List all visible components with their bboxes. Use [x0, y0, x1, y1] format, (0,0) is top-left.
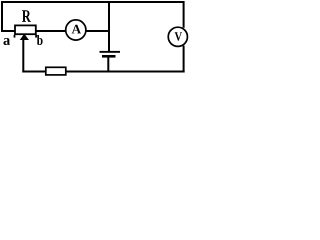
wire wiper vertical — [22, 39, 24, 72]
rheostat terminal stub a — [14, 35, 16, 38]
label R — [22, 10, 31, 22]
rheostat wiper arrow — [20, 34, 29, 40]
label a — [4, 38, 11, 45]
battery long plate — [100, 51, 121, 53]
rheostat R body — [15, 25, 36, 34]
wire battery bottom lead — [107, 57, 109, 72]
wire left to rheostat — [1, 30, 15, 32]
wire ammeter to battery node — [86, 30, 110, 32]
ammeter A circle — [66, 20, 86, 40]
rheostat terminal stub b — [35, 35, 37, 38]
ammeter label A — [72, 25, 81, 34]
wire rheostat to ammeter — [36, 30, 65, 32]
wire right vertical top — [183, 1, 185, 28]
wire battery top lead — [108, 1, 110, 52]
voltmeter V circle — [168, 27, 187, 46]
wire right vertical bottom — [183, 46, 185, 73]
wire left vertical — [1, 1, 3, 32]
wire top — [1, 1, 185, 3]
voltmeter label V — [175, 32, 182, 41]
resistor R0 body (bottom) — [46, 67, 66, 75]
battery short plate — [102, 55, 116, 58]
wire bottom — [22, 71, 184, 73]
label b — [37, 35, 43, 45]
